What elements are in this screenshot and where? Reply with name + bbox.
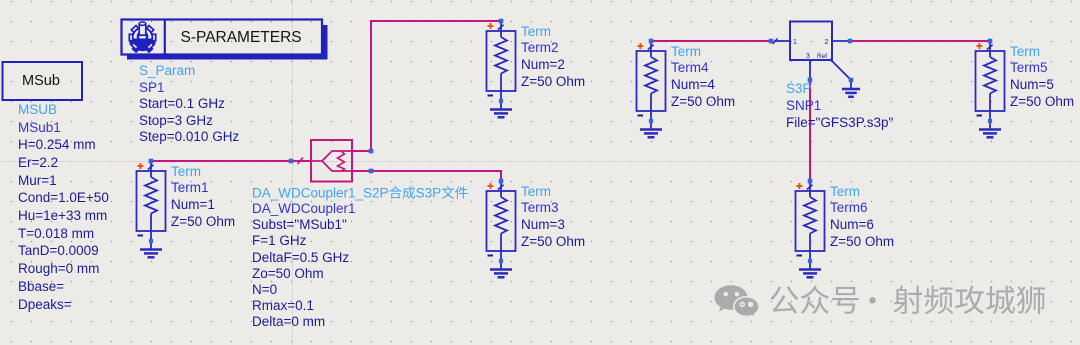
svg-text:S3P: S3P <box>416 186 442 201</box>
svg-text:S-PARAMETERS: S-PARAMETERS <box>181 29 302 46</box>
svg-text:MSub: MSub <box>22 73 60 89</box>
svg-text:2: 2 <box>825 39 829 46</box>
svg-text:3: 3 <box>806 53 810 60</box>
svg-text:DA_WDCoupler1_S2P: DA_WDCoupler1_S2P <box>252 186 389 201</box>
svg-text:Ref: Ref <box>817 53 827 60</box>
svg-text:1: 1 <box>793 39 797 46</box>
